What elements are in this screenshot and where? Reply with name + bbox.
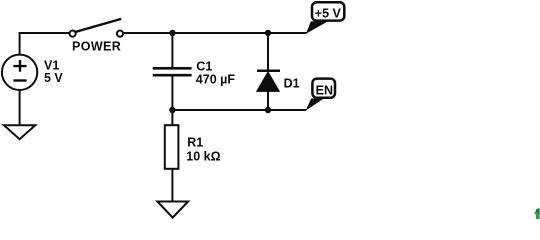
switch POWER (open SPST) <box>70 19 124 37</box>
svg-text:+5 V: +5 V <box>315 6 342 20</box>
R1 value label 10 kOhm <box>186 150 220 164</box>
svg-text:R1: R1 <box>187 135 203 149</box>
net flag +5 V (box) <box>312 2 344 20</box>
svg-text:5 V: 5 V <box>44 71 63 85</box>
ground (left, under V1) <box>4 125 35 139</box>
node: top rail / D1 junction <box>265 30 271 36</box>
D1 reference label <box>284 76 300 90</box>
diode D1 <box>257 33 280 110</box>
V1 reference label <box>44 58 59 72</box>
watermark fragment (green t, bottom-right corner) <box>535 208 540 219</box>
net flag +5 V (tail) <box>306 21 328 33</box>
wire: bottom rail (C1/R1 to EN) <box>172 109 306 111</box>
node: bottom rail / D1 junction <box>265 107 271 113</box>
svg-text:POWER: POWER <box>72 40 121 54</box>
svg-text:D1: D1 <box>284 76 300 90</box>
voltage source V1 <box>2 55 37 90</box>
ground (bottom, under R1) <box>157 202 188 218</box>
svg-text:V1: V1 <box>44 58 59 72</box>
resistor R1 <box>165 110 179 202</box>
node: bottom rail / R1 junction <box>169 107 175 113</box>
svg-text:10 kΩ: 10 kΩ <box>186 150 220 164</box>
C1 reference label <box>196 59 212 73</box>
svg-text:470 µF: 470 µF <box>196 72 236 86</box>
wire: switch to +5V rail <box>123 32 306 34</box>
wire: V1 bottom to ground <box>19 90 21 125</box>
node: top rail / C1 junction <box>169 30 175 36</box>
R1 reference label <box>187 135 203 149</box>
svg-text:EN: EN <box>316 84 333 98</box>
capacitor C1 <box>153 33 192 110</box>
svg-text:C1: C1 <box>196 59 212 73</box>
net flag EN (box) <box>312 79 335 98</box>
POWER label <box>72 40 121 54</box>
C1 value label 470 uF <box>196 72 236 86</box>
V1 value label 5 V <box>44 71 63 85</box>
wire: V1 top to switch <box>20 33 70 54</box>
net flag EN (tail) <box>306 99 324 111</box>
